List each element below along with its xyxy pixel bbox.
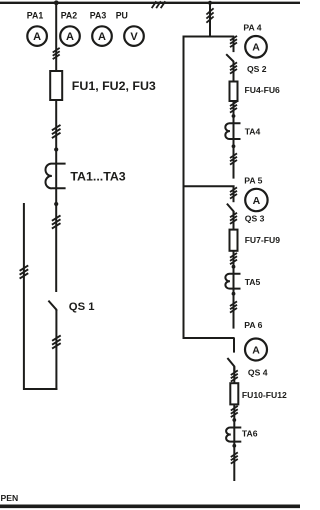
wire branch2 mid [233,212,235,230]
node dot below TA4 [232,144,236,148]
label PA 4 [243,22,261,32]
group marker branch2 top [230,187,237,198]
group marker below QS3 [230,213,237,224]
ammeter PA1 [27,26,47,46]
fuse FU7-FU9 [230,230,238,251]
wire bottom link [23,388,57,390]
ammeter PA4 [245,36,267,58]
wire below fuse FU1 [55,100,57,292]
group marker right feeder [206,8,213,22]
svg-text:TA1...TA3: TA1...TA3 [70,169,125,183]
fuse FU4-FU6 [230,82,238,102]
label FU1, FU2, FU3 [72,79,156,93]
svg-text:PU: PU [116,10,128,20]
wire branch1 lower [233,101,235,179]
label FU7-FU9 [245,235,281,245]
node dot above TA4 [232,114,236,118]
svg-text:FU7-FU9: FU7-FU9 [245,235,281,245]
current transformer TA1...TA3 [45,164,65,189]
group marker on loop riser [20,265,29,278]
ammeter PA2 [60,26,80,46]
svg-text:V: V [130,31,138,43]
group marker below QS2 [230,62,237,73]
svg-text:PA3: PA3 [90,10,107,20]
label TA1...TA3 [70,169,125,183]
fuse FU1, FU2, FU3 [50,71,62,100]
svg-text:A: A [253,195,261,207]
svg-text:PA1: PA1 [27,10,44,20]
svg-text:A: A [252,42,260,54]
wire bypass riser [183,37,185,340]
node junction dot left feeder [54,0,59,5]
group marker below FU4 [230,101,237,112]
wire below QS1 [55,310,57,390]
label QS 2 [247,64,267,74]
node dot above TA6 [232,418,236,422]
wire left loop riser [23,203,25,390]
svg-text:QS 2: QS 2 [247,64,267,74]
svg-text:TA4: TA4 [245,127,261,137]
label QS 4 [248,367,268,377]
svg-text:TA6: TA6 [242,429,258,439]
current transformer TA6 [226,427,241,441]
wire PEN bus [0,504,300,508]
svg-text:QS 4: QS 4 [248,367,268,377]
label TA6 [242,429,258,439]
wire top supply bus [0,2,300,4]
fuse FU10-FU12 [230,383,238,404]
svg-text:PA 6: PA 6 [244,320,262,330]
ammeter PA5 [245,189,267,211]
wire bypass mid link [183,185,235,187]
svg-text:A: A [98,31,106,43]
wire bypass top link [183,36,235,38]
wire branch1 mid [233,62,235,82]
label TA5 [245,277,261,287]
ammeter PA3 label [90,10,107,20]
wire branch3 mid [233,366,235,383]
current transformer TA5 [225,274,240,289]
label QS 3 [245,214,265,224]
wire branch2 lower [233,251,235,329]
svg-text:PA2: PA2 [61,10,78,20]
disconnector QS1 blade [48,301,56,311]
label QS 1 [69,301,95,313]
disconnector QS2 blade [226,54,233,64]
label PA 5 [244,176,262,186]
svg-text:QS 3: QS 3 [245,214,265,224]
svg-text:FU1, FU2, FU3: FU1, FU2, FU3 [72,79,156,93]
svg-text:A: A [252,344,260,356]
label FU10-FU12 [242,390,287,400]
svg-text:QS 1: QS 1 [69,301,95,313]
voltmeter PU label [116,10,128,20]
group marker on top bus [152,1,166,8]
svg-text:A: A [33,31,41,43]
wire branch3 lower [233,404,235,481]
wire bypass bottom link [183,337,235,339]
node dot below TA5 [232,292,236,296]
wire branch3 upper [233,338,235,353]
voltmeter PU [124,26,144,46]
disconnector QS3 blade [227,204,234,215]
group marker below QS4 [231,370,238,381]
wire branch1 upper [233,37,235,53]
group marker below FU1 [52,125,61,138]
group marker above QS1 [52,215,61,228]
group marker left feeder [53,48,60,59]
label FU4-FU6 [245,85,281,95]
label PA 6 [244,320,262,330]
group marker below FU10 [231,406,238,417]
ammeter PA6 [245,339,267,361]
svg-text:PA 5: PA 5 [244,176,262,186]
svg-text:PEN: PEN [1,493,19,503]
wire right feeder drop [209,3,211,38]
svg-text:FU10-FU12: FU10-FU12 [242,390,287,400]
wire left feeder upper [55,3,57,72]
node junction dot right feeder [208,1,212,5]
ammeter PA2 label [61,10,78,20]
node dot above TA5 [232,265,236,269]
group marker branch2 tail [230,301,237,312]
svg-text:TA5: TA5 [245,277,261,287]
current transformer TA4 [225,123,240,139]
label PEN [1,493,19,503]
group marker below FU7 [230,253,237,264]
group marker below QS1 [52,335,61,348]
group marker branch3 tail [231,452,238,463]
node dot below TA1 [54,202,58,206]
svg-text:A: A [66,31,74,43]
group marker branch1 top [230,36,237,47]
ammeter PA1 label [27,10,44,20]
label TA4 [245,127,261,137]
group marker branch1 tail [230,153,237,164]
wire branch2 upper [233,186,235,202]
node dot below TA6 [232,444,236,448]
disconnector QS4 blade [227,358,234,372]
ammeter PA3 [92,26,112,46]
node dot above TA1 [54,147,58,151]
svg-text:PA 4: PA 4 [243,22,261,32]
svg-text:FU4-FU6: FU4-FU6 [245,85,281,95]
